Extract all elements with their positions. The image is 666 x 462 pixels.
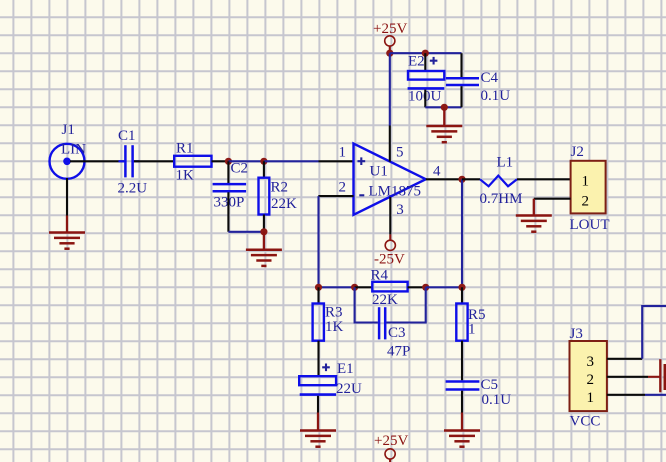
node at R2 [260,158,267,165]
node output [458,176,465,183]
svg-text:C3: C3 [388,325,406,341]
svg-text:L1: L1 [497,154,514,170]
op-amp U1 LM1875 [339,144,442,218]
wire J1 to ground [66,178,68,216]
resistor R2 [259,161,298,232]
wire +25V down to U1 pin5 [389,53,391,125]
power port +25V bottom [374,433,408,462]
svg-text:5: 5 [396,144,404,160]
pin 2 U1 [318,195,353,197]
ground below E1 [300,413,336,447]
wire R2 node to U1 pin1 [264,160,319,162]
wire output down to feedback row [461,179,463,287]
svg-text:LOUT: LOUT [570,217,610,233]
capacitor E1 [299,361,362,413]
svg-text:R4: R4 [371,268,389,284]
node R2 bottom [260,228,267,235]
power port -25V [374,234,405,267]
svg-text:3: 3 [587,354,595,370]
svg-text:C1: C1 [118,128,136,144]
capacitor C4 [446,53,510,107]
svg-text:C2: C2 [231,161,249,177]
pin 3 U1 to -25V [389,197,391,235]
svg-text:VCC: VCC [570,413,601,429]
connector J3 [570,326,607,429]
pin J3-2 [607,376,648,378]
node +25V [386,50,393,57]
node output feedback [458,284,465,291]
wire pin2 to feedback node [317,196,319,287]
svg-text:3: 3 [396,202,404,218]
svg-text:0.7HM: 0.7HM [480,191,523,207]
svg-text:22K: 22K [372,292,398,308]
pin J3-3 [607,358,642,360]
resistor R3 [313,287,344,376]
capacitor C3 [355,287,426,359]
svg-text:+25V: +25V [374,433,408,449]
pin R1 right [212,160,229,162]
wire L1 to J2 [517,178,571,180]
svg-text:E2: E2 [408,54,425,70]
svg-text:0.1U: 0.1U [482,392,512,408]
svg-text:E1: E1 [337,361,354,377]
wire J1 to C1 [70,160,124,162]
node E2 top [422,50,429,57]
wire J3-1 right [645,394,666,396]
svg-text:1: 1 [468,322,476,338]
svg-text:LIN: LIN [61,142,86,158]
power port +25V top [373,21,407,53]
ground at J2 [516,199,552,232]
capacitor at right edge [660,359,666,392]
capacitor C1 [118,128,148,197]
wire C1 to R1 [134,160,174,162]
svg-text:-25V: -25V [374,251,405,267]
pin 4 U1 output [426,178,462,180]
wire C2 node to R2 node [228,160,264,162]
svg-text:1: 1 [587,390,595,406]
wire E2 bottom rail [425,106,461,108]
pin J3-1 [607,394,645,396]
svg-text:LM1875: LM1875 [369,184,422,200]
capacitor E2 [408,53,445,107]
svg-text:U1: U1 [370,164,388,180]
svg-text:1K: 1K [325,319,344,335]
svg-text:1K: 1K [176,168,195,184]
wire feedback row left [319,286,355,288]
node ground rail [441,104,448,111]
svg-text:4: 4 [433,164,441,180]
svg-text:22U: 22U [336,381,362,397]
svg-text:J3: J3 [570,326,583,342]
pin 1 U1 [319,160,354,162]
node C3 left [351,284,358,291]
wire R4 right to output node [426,286,462,288]
wire J2 pin2 to ground [534,198,571,200]
svg-text:2: 2 [582,193,590,209]
node C3 right [422,284,429,291]
svg-text:J1: J1 [62,122,75,138]
svg-text:R2: R2 [271,180,289,196]
wire C2 bottom to R2 bottom [228,231,264,233]
svg-text:22K: 22K [271,196,297,212]
wire +25V rail to C4 [390,52,462,54]
svg-text:1: 1 [582,174,590,190]
resistor R4 [355,268,426,309]
svg-text:2.2U: 2.2U [118,181,148,197]
resistor R1 [174,141,211,184]
ground below J1 [49,216,85,249]
svg-text:2: 2 [339,179,347,195]
capacitor C5 [446,377,512,413]
ground below C5 [444,413,480,447]
svg-text:2: 2 [587,372,595,388]
svg-text:+25V: +25V [373,21,407,37]
svg-text:47P: 47P [387,344,410,360]
connector J2 [570,144,610,233]
wire J3-2 maroon stub [648,376,660,378]
svg-text:J2: J2 [571,144,584,160]
ground below E2 [426,107,462,142]
connector J1 [50,122,87,179]
capacitor C2 [213,161,248,232]
svg-text:R1: R1 [176,141,194,157]
pin 5 U1 [389,126,391,162]
ground below R2 [246,232,282,266]
svg-text:0.1U: 0.1U [481,88,511,104]
resistor R5 [456,287,485,380]
svg-text:1: 1 [339,144,347,160]
node feedback left [315,284,322,291]
wire J3-3 up and right [642,306,666,359]
inductor L1 [462,154,522,207]
svg-text:C5: C5 [481,377,499,393]
node at C2 [225,158,232,165]
svg-text:C4: C4 [481,70,499,86]
